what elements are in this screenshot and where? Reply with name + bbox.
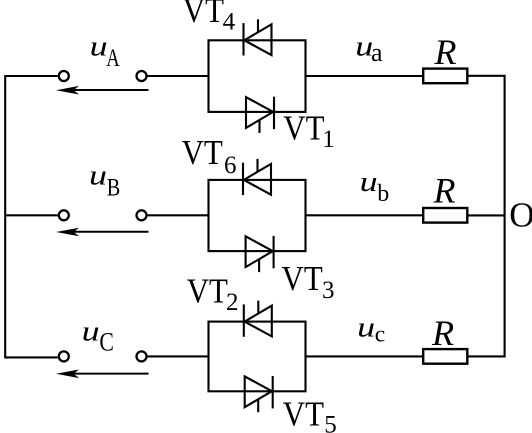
- svg-text:u: u: [357, 312, 375, 343]
- svg-text:R: R: [434, 32, 457, 72]
- svg-text:3: 3: [322, 277, 335, 304]
- svg-text:u: u: [90, 31, 108, 62]
- svg-text:4: 4: [223, 8, 236, 35]
- svg-text:1: 1: [322, 126, 335, 153]
- svg-text:VT: VT: [283, 395, 324, 433]
- svg-text:R: R: [431, 313, 454, 353]
- svg-text:u: u: [82, 316, 100, 347]
- svg-text:b: b: [377, 181, 389, 207]
- svg-text:C: C: [99, 328, 114, 357]
- svg-text:VT: VT: [187, 272, 228, 310]
- svg-text:VT: VT: [182, 134, 223, 172]
- svg-text:B: B: [107, 174, 121, 201]
- svg-text:R: R: [433, 171, 456, 211]
- svg-text:VT: VT: [283, 110, 324, 148]
- svg-text:VT: VT: [183, 0, 224, 30]
- svg-text:a: a: [371, 38, 383, 67]
- svg-text:A: A: [106, 45, 120, 72]
- svg-text:u: u: [360, 167, 378, 198]
- svg-text:c: c: [375, 322, 385, 348]
- svg-text:VT: VT: [282, 260, 323, 298]
- svg-text:2: 2: [226, 289, 239, 316]
- svg-text:u: u: [89, 161, 107, 192]
- svg-text:6: 6: [224, 152, 237, 179]
- svg-text:5: 5: [324, 411, 337, 433]
- svg-text:O: O: [509, 195, 532, 234]
